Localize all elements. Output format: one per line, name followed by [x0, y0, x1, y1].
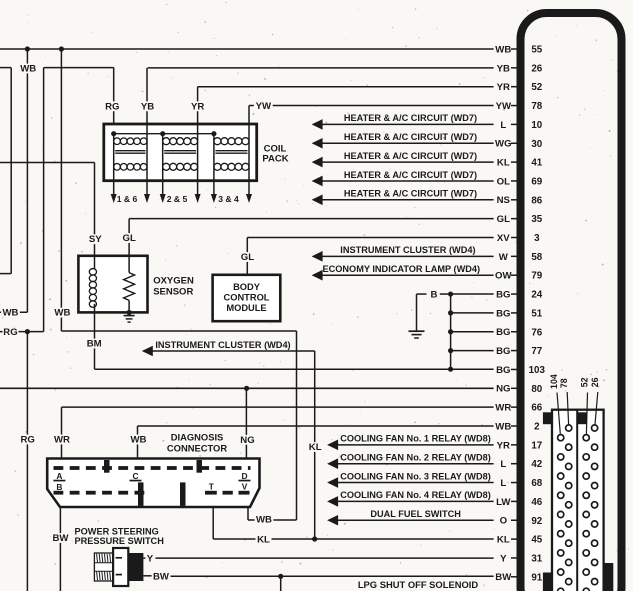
- svg-text:SY: SY: [89, 234, 102, 245]
- svg-text:BG: BG: [496, 308, 510, 319]
- svg-text:WB: WB: [495, 44, 511, 55]
- svg-text:L: L: [500, 120, 506, 131]
- svg-text:WG: WG: [495, 139, 512, 150]
- svg-text:WB: WB: [495, 421, 511, 432]
- svg-text:76: 76: [531, 327, 542, 338]
- svg-text:69: 69: [531, 176, 542, 187]
- svg-text:INSTRUMENT CLUSTER (WD4): INSTRUMENT CLUSTER (WD4): [340, 245, 475, 255]
- svg-text:RG: RG: [3, 327, 17, 338]
- svg-text:SENSOR: SENSOR: [153, 287, 193, 298]
- svg-text:78: 78: [559, 378, 569, 388]
- svg-text:OXYGEN: OXYGEN: [153, 275, 194, 286]
- svg-text:HEATER & A/C CIRCUIT (WD7): HEATER & A/C CIRCUIT (WD7): [344, 189, 477, 199]
- svg-text:MODULE: MODULE: [226, 303, 266, 313]
- svg-text:KL: KL: [497, 535, 510, 546]
- svg-text:YR: YR: [497, 82, 510, 93]
- svg-text:PACK: PACK: [262, 154, 288, 165]
- svg-text:PRESSURE SWITCH: PRESSURE SWITCH: [75, 536, 165, 546]
- svg-text:58: 58: [531, 252, 542, 263]
- svg-text:WR: WR: [54, 435, 70, 446]
- svg-text:WR: WR: [495, 403, 511, 414]
- svg-text:26: 26: [590, 377, 600, 387]
- svg-text:YR: YR: [497, 440, 510, 451]
- svg-text:78: 78: [531, 101, 542, 112]
- svg-text:10: 10: [531, 120, 542, 131]
- svg-text:DIAGNOSIS: DIAGNOSIS: [171, 432, 224, 443]
- svg-text:COOLING FAN No. 2 RELAY (WD8): COOLING FAN No. 2 RELAY (WD8): [340, 453, 491, 463]
- svg-text:86: 86: [531, 195, 542, 206]
- svg-text:RG: RG: [105, 101, 119, 112]
- svg-text:77: 77: [531, 346, 542, 357]
- svg-text:YW: YW: [496, 101, 512, 112]
- svg-text:BM: BM: [87, 339, 102, 350]
- svg-text:KL: KL: [309, 442, 322, 453]
- svg-text:XV: XV: [497, 233, 510, 244]
- svg-text:POWER STEERING: POWER STEERING: [75, 526, 159, 536]
- svg-text:BG: BG: [496, 289, 510, 300]
- svg-text:31: 31: [531, 553, 542, 564]
- svg-text:WB: WB: [131, 435, 147, 446]
- svg-text:INSTRUMENT CLUSTER (WD4): INSTRUMENT CLUSTER (WD4): [155, 340, 290, 350]
- svg-text:30: 30: [531, 139, 542, 150]
- svg-text:68: 68: [531, 478, 542, 489]
- svg-text:LW: LW: [496, 497, 511, 508]
- svg-text:NG: NG: [240, 435, 254, 446]
- svg-text:51: 51: [531, 308, 542, 319]
- svg-text:3 & 4: 3 & 4: [218, 194, 239, 204]
- svg-text:LPG SHUT OFF SOLENOID: LPG SHUT OFF SOLENOID: [358, 579, 479, 590]
- svg-text:BW: BW: [495, 572, 512, 583]
- svg-text:BG: BG: [496, 365, 510, 376]
- svg-text:92: 92: [531, 516, 542, 527]
- svg-text:COOLING FAN No. 3 RELAY (WD8): COOLING FAN No. 3 RELAY (WD8): [340, 471, 491, 481]
- svg-text:45: 45: [531, 535, 542, 546]
- svg-text:NS: NS: [497, 195, 511, 206]
- svg-text:O: O: [500, 516, 508, 527]
- svg-text:C: C: [132, 471, 138, 481]
- svg-text:1 & 6: 1 & 6: [117, 194, 138, 204]
- svg-text:WB: WB: [20, 64, 36, 75]
- svg-text:BW: BW: [153, 571, 170, 582]
- svg-text:YR: YR: [191, 101, 204, 112]
- svg-text:L: L: [500, 459, 506, 470]
- svg-text:HEATER & A/C CIRCUIT (WD7): HEATER & A/C CIRCUIT (WD7): [344, 170, 477, 180]
- svg-text:80: 80: [531, 384, 542, 395]
- svg-text:WB: WB: [54, 308, 70, 319]
- svg-text:YB: YB: [497, 63, 510, 74]
- svg-text:KL: KL: [497, 158, 510, 169]
- svg-text:26: 26: [531, 63, 542, 74]
- svg-text:79: 79: [531, 271, 542, 282]
- svg-text:BG: BG: [496, 327, 510, 338]
- svg-text:52: 52: [580, 377, 590, 387]
- svg-text:NG: NG: [496, 384, 510, 395]
- svg-text:17: 17: [531, 440, 542, 451]
- svg-text:Y: Y: [500, 553, 507, 564]
- svg-text:HEATER & A/C CIRCUIT (WD7): HEATER & A/C CIRCUIT (WD7): [344, 151, 477, 161]
- svg-text:103: 103: [529, 365, 546, 376]
- svg-text:BODY: BODY: [233, 282, 261, 292]
- svg-text:B: B: [431, 289, 438, 300]
- svg-text:V: V: [242, 481, 248, 491]
- svg-text:BW: BW: [53, 533, 70, 544]
- svg-text:WB: WB: [256, 515, 272, 526]
- svg-text:GL: GL: [123, 233, 136, 244]
- svg-text:3: 3: [534, 233, 540, 244]
- svg-text:L: L: [500, 478, 506, 489]
- svg-text:COOLING FAN No. 1 RELAY (WD8): COOLING FAN No. 1 RELAY (WD8): [340, 434, 491, 444]
- svg-text:46: 46: [531, 497, 542, 508]
- svg-text:104: 104: [549, 374, 559, 389]
- svg-text:42: 42: [531, 459, 542, 470]
- svg-text:35: 35: [531, 214, 542, 225]
- svg-text:RG: RG: [21, 435, 35, 446]
- svg-text:HEATER & A/C CIRCUIT (WD7): HEATER & A/C CIRCUIT (WD7): [344, 113, 477, 123]
- svg-text:W: W: [499, 252, 509, 263]
- svg-text:BG: BG: [496, 346, 510, 357]
- svg-text:OL: OL: [497, 176, 510, 187]
- svg-text:HEATER & A/C CIRCUIT (WD7): HEATER & A/C CIRCUIT (WD7): [344, 132, 477, 142]
- svg-text:66: 66: [531, 403, 542, 414]
- svg-text:41: 41: [531, 158, 542, 169]
- svg-text:D: D: [241, 471, 247, 481]
- svg-text:A: A: [56, 471, 62, 481]
- svg-text:CONNECTOR: CONNECTOR: [167, 443, 227, 454]
- svg-text:2: 2: [534, 422, 540, 433]
- svg-text:Y: Y: [147, 553, 154, 564]
- svg-text:DUAL FUEL SWITCH: DUAL FUEL SWITCH: [370, 509, 461, 519]
- svg-text:GL: GL: [497, 214, 510, 225]
- svg-text:2 & 5: 2 & 5: [167, 194, 188, 204]
- svg-text:91: 91: [531, 572, 542, 583]
- svg-text:COOLING FAN No. 4 RELAY (WD8): COOLING FAN No. 4 RELAY (WD8): [340, 490, 491, 500]
- svg-text:WB: WB: [3, 308, 19, 319]
- svg-text:OW: OW: [495, 271, 512, 282]
- svg-text:B: B: [56, 482, 62, 492]
- svg-text:GL: GL: [241, 252, 254, 263]
- svg-text:52: 52: [531, 82, 542, 93]
- svg-text:T: T: [209, 481, 215, 491]
- svg-text:YW: YW: [256, 101, 272, 112]
- svg-text:55: 55: [531, 45, 542, 56]
- svg-text:KL: KL: [257, 534, 270, 545]
- svg-text:CONTROL: CONTROL: [224, 293, 270, 303]
- svg-text:24: 24: [531, 290, 542, 301]
- svg-text:ECONOMY INDICATOR LAMP (WD4): ECONOMY INDICATOR LAMP (WD4): [323, 264, 481, 274]
- svg-text:YB: YB: [141, 101, 154, 112]
